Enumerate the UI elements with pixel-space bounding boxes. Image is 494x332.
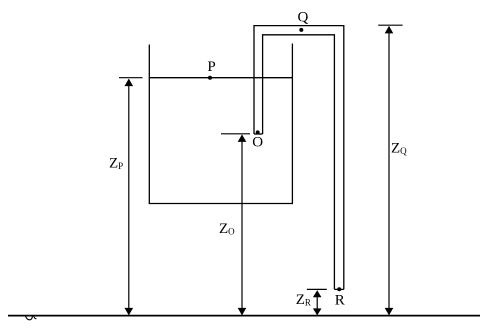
tank right wall [291, 44, 293, 204]
tank bottom [149, 203, 293, 205]
node R dot [337, 287, 341, 291]
node Q dot [299, 28, 303, 32]
dimension ZO arrowhead down [238, 308, 247, 316]
svg-text:ZO: ZO [219, 221, 235, 237]
datum ground line [8, 315, 480, 317]
dimension ZR arrowhead up [313, 290, 322, 297]
svg-text:ZQ: ZQ [391, 141, 407, 157]
dimension ZQ arrowhead down [385, 308, 394, 316]
dimension ZP top tick [119, 77, 143, 79]
node O dot [256, 130, 260, 134]
dimension ZP line [128, 80, 130, 315]
dimension ZR arrowhead down [313, 308, 322, 315]
water surface line [149, 77, 292, 79]
dimension ZO line [241, 135, 243, 314]
dimension ZQ top tick [378, 24, 402, 26]
tube inlet cap at O [254, 133, 263, 135]
svg-text:O: O [252, 134, 263, 150]
dimension ZP arrowhead up [125, 79, 134, 87]
svg-text:Q: Q [297, 9, 308, 25]
svg-text:P: P [207, 59, 215, 75]
tube outlet cap at R [334, 288, 343, 290]
siphon tube outer wall [254, 26, 344, 290]
dimension ZQ line [388, 27, 390, 315]
squiggle mark on datum line [26, 316, 37, 320]
svg-text:ZR: ZR [296, 292, 311, 308]
dimension ZP arrowhead down [125, 308, 134, 316]
dimension ZO top tick [221, 133, 250, 135]
tank left wall [148, 45, 150, 204]
siphon tube inner wall [263, 35, 335, 290]
svg-text:ZP: ZP [109, 156, 123, 172]
node P dot [208, 76, 212, 80]
dimension ZR line [316, 291, 318, 315]
dimension ZR top tick [307, 288, 327, 290]
dimension ZQ arrowhead up [385, 26, 394, 34]
svg-text:R: R [335, 293, 345, 309]
dimension ZO arrowhead up [238, 134, 247, 142]
